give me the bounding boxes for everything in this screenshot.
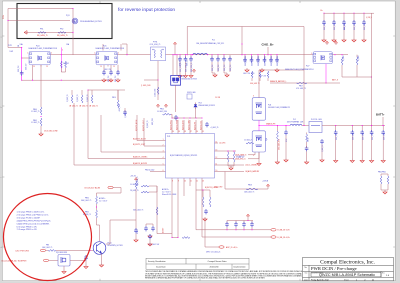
junction 178 237 (177, 237, 178, 238)
wire PR11 up (91, 90, 93, 95)
wire drop PQ5 cluster 1 (110, 65, 112, 72)
wire row3 ADP_ID (205, 246, 219, 248)
svg-text:ACSET=: ACSET= (162, 188, 169, 191)
svg-text:NB_G4SS_75: NB_G4SS_75 (57, 35, 68, 37)
ground PC3 (109, 78, 113, 82)
wire U1 pin3 vertical (100, 115, 102, 152)
junction DCIN/gate (7, 20, 8, 21)
note block change list (17, 211, 52, 232)
junction above IC 184 (183, 117, 184, 118)
wire pc40 link (146, 224, 153, 226)
svg-text:4.7K_0402_75: 4.7K_0402_75 (296, 88, 306, 90)
wire drop center cap 1 (185, 55, 187, 59)
svg-text:100K_0402_75: 100K_0402_75 (42, 247, 52, 249)
wire PQ4 source drop (32, 65, 34, 80)
svg-text:5: 5 (163, 163, 164, 165)
svg-text:51_0402_75: 51_0402_75 (87, 94, 89, 102)
wire PR26 top (233, 151, 235, 152)
resistor PR25 (227, 152, 229, 162)
compal secret data table (146, 258, 249, 269)
junction above IC 172 (171, 117, 172, 118)
wire PR40 down (381, 184, 385, 190)
transistor PQ10 (93, 242, 106, 255)
wire PR10 up (81, 90, 83, 95)
wire res32 link (149, 186, 157, 192)
junction lodrv (202, 189, 203, 190)
junction chain mid (96, 206, 97, 207)
svg-text:1_0402_25: 1_0402_25 (322, 145, 324, 152)
component PJ2 small box (187, 94, 192, 99)
wire U1 left pin 1 (137, 140, 166, 142)
svg-text:10_0402: 10_0402 (343, 55, 345, 61)
ground center 2 (189, 74, 193, 78)
wire PR23 up (306, 133, 308, 135)
svg-text:<19,26,50> ACIN: <19,26,50> ACIN (84, 186, 100, 189)
capacitor PC7 (184, 57, 188, 62)
svg-text:10UF_25V_1206: 10UF_25V_1206 (252, 56, 254, 66)
wire drop bus cap 1 (251, 55, 253, 60)
svg-text:300K_0402_75: 300K_0402_75 (133, 209, 143, 211)
junction left hot bottom (21, 80, 22, 81)
svg-text:PQ11 BSS138W: PQ11 BSS138W (56, 252, 68, 254)
capacitor PC47 (242, 222, 246, 227)
wire bottom pin 172 drop (171, 186, 173, 238)
wire U1 left pin 5 (74, 164, 166, 166)
svg-text:Size: Size (305, 272, 308, 274)
resistor PR5 (60, 61, 62, 68)
wire mid cap gnd a (212, 72, 215, 73)
resistor PR64 (40, 107, 42, 115)
wire E cap stub 0 (226, 221, 228, 224)
svg-text:51_0402_75: 51_0402_75 (31, 111, 40, 113)
ground top cap 0 (322, 38, 326, 42)
resistor PR13 (157, 87, 159, 95)
wire CHG label tick (267, 47, 269, 55)
svg-text:10UF_25V: 10UF_25V (362, 133, 364, 140)
wire PR24 link (171, 114, 172, 118)
resistor PR30 (96, 196, 98, 204)
junction SEANCN row (325, 82, 326, 83)
svg-text:BQ24725_VCC: BQ24725_VCC (200, 121, 202, 130)
wire E cap stub 1 (235, 221, 237, 224)
svg-text:BQ24725_BTST: BQ24725_BTST (182, 120, 184, 130)
wire top cap gnd lead 0 (323, 25, 325, 38)
junction bus cap 0 (244, 54, 245, 55)
svg-text:5: 5 (62, 50, 63, 52)
wire PTH1 bottom vertical (157, 61, 159, 100)
svg-text:PR44 10_0402: PR44 10_0402 (145, 170, 155, 172)
svg-text:10UF_25V: 10UF_25V (224, 64, 226, 71)
svg-text:10UF_25V: 10UF_25V (383, 133, 385, 140)
junction above IC 190 (189, 117, 190, 118)
wire PR20 top (356, 55, 358, 57)
wire U1 right pin 2 (215, 158, 235, 160)
wire mid cap lead 0 (211, 62, 213, 72)
wire 15VLB row (225, 188, 268, 190)
svg-text:<10,20,28,38,40> SUSPW#: <10,20,28,38,40> SUSPW# (1, 259, 27, 262)
svg-text:PR8: PR8 (46, 244, 49, 246)
resistor PR10 (81, 95, 83, 103)
junction above IC 202 (201, 117, 202, 118)
svg-text:PL1: PL1 (212, 39, 215, 41)
wire A_SRC_S (248, 152, 259, 159)
svg-text:BQ24725_PVCC: BQ24725_PVCC (170, 120, 172, 130)
junction PQ4 drop (32, 80, 33, 81)
transistor PQ5 package (96, 51, 117, 65)
resistor PR52 (267, 71, 269, 78)
wire drop mid cap 1 (217, 55, 219, 59)
wire right link y77 (342, 76, 372, 78)
ground Q10 (99, 263, 103, 267)
power arrow +3V_S5 (135, 178, 138, 182)
svg-text:1_0402_25: 1_0402_25 (125, 111, 127, 118)
wire 15VLB arrow stem (267, 188, 269, 189)
svg-text:100K_0402_75: 100K_0402_75 (250, 83, 260, 85)
svg-text:51_0402_75: 51_0402_75 (67, 94, 69, 102)
junction 172 237 (171, 237, 172, 238)
svg-text:10UF_25V: 10UF_25V (336, 133, 338, 140)
svg-text:Q_GND_2016: Q_GND_2016 (141, 85, 151, 87)
wire PL2 to PL3 (302, 125, 309, 127)
wire top cap gnd lead 2 (343, 25, 345, 38)
resistor PR9 (71, 95, 73, 103)
svg-text:100P: 100P (10, 51, 14, 53)
svg-text:Compal Secret Data: Compal Secret Data (208, 260, 228, 263)
resistor PR20 (356, 57, 358, 65)
wire top cap drop 3 (353, 13, 355, 22)
svg-text:0402_2016: 0402_2016 (152, 118, 154, 125)
svg-text:PR1: PR1 (40, 29, 43, 31)
power arrow E row (247, 214, 250, 218)
junction PTH1 vertical (157, 79, 158, 80)
svg-text:10UF_25V_1206: 10UF_25V_1206 (265, 56, 267, 66)
capacitor PC40 (144, 226, 148, 231)
wire A_GATE_S (248, 152, 255, 155)
wire drop bus cap 4 (270, 55, 272, 60)
resistor PR16 (182, 237, 190, 239)
wire PR36 down (135, 189, 137, 230)
wire chain to Q10 (97, 218, 100, 241)
wire batt cap drop 4 (382, 126, 384, 133)
wire E_NB_IN row2 (202, 236, 271, 238)
wire PQ3 drain vertical (72, 9, 74, 55)
wire PR5 bottom (61, 68, 65, 72)
capacitor PC22 (342, 20, 346, 25)
junction CHG loop left (187, 54, 188, 55)
junction PR22 (277, 125, 278, 126)
svg-text:9: 9 (178, 180, 179, 182)
junction bus cap 1 (251, 54, 252, 55)
offpage connector ACIN (108, 186, 113, 188)
wire batt cap drop 2 (361, 126, 363, 133)
capacitor PC72 (222, 57, 226, 62)
wire DCIN elbow (8, 47, 22, 49)
transistor PQ6 package (252, 98, 265, 121)
wire drop mid cap 0 (211, 55, 213, 59)
secret data fine print paragraph (145, 270, 303, 279)
wire CHG loop to battrow (303, 70, 305, 126)
svg-text:HEREIN ARE CONFIDENTIAL AND PR: HEREIN ARE CONFIDENTIAL AND PROPRIETARY … (145, 277, 266, 280)
ground left chain (39, 132, 43, 136)
wire PL3 to BATT bus (322, 125, 385, 127)
svg-text:1.Change PR03 to 200K 0.1%.: 1.Change PR03 to 200K 0.1%. (17, 211, 45, 214)
ground mid caps a (213, 73, 217, 77)
svg-text:(24) C_CMSRC: (24) C_CMSRC (246, 165, 259, 167)
capacitor PC20 (322, 20, 326, 25)
wire U1 right pin 0 (215, 142, 219, 144)
wire PR65 to gnd (40, 126, 42, 133)
junction base (89, 250, 90, 251)
wire row1 from pin (195, 186, 197, 230)
port arrow NB_G4SS (24, 31, 27, 35)
resistor PR24 (163, 113, 172, 115)
wire PC50 up (285, 126, 287, 131)
wire cap row link 2 (243, 227, 245, 230)
capacitor PC56 (351, 130, 355, 135)
svg-text:c: c (1, 177, 2, 179)
svg-text:19: 19 (178, 131, 180, 133)
wire acset elbow (157, 233, 172, 235)
capacitor PC26 (320, 139, 324, 144)
junction batt cap 4 (383, 125, 384, 126)
svg-text:PR17: PR17 (299, 86, 303, 88)
wire PQ7 drain down (325, 64, 327, 83)
svg-text:10UF_25V: 10UF_25V (212, 64, 214, 71)
svg-text:6: 6 (163, 170, 164, 172)
wire batt cap lead 1 (351, 135, 353, 158)
capacitor PC41 (151, 226, 155, 231)
junction PQ9 b (176, 54, 177, 55)
inductor PL1 (193, 53, 208, 54)
wire ADP vertical (204, 218, 206, 247)
wire acok vertical (136, 115, 138, 141)
wire drop bus cap 2 (257, 55, 259, 60)
svg-text:E_NB_IN <8,9>: E_NB_IN <8,9> (278, 229, 291, 232)
svg-text:E_NB_IN <8,9>: E_NB_IN <8,9> (278, 236, 291, 239)
svg-text:10: 10 (216, 170, 218, 172)
svg-text:@PD# C/O_0402_25: @PD# C/O_0402_25 (206, 251, 220, 253)
wire PQ11 down (63, 266, 65, 270)
svg-text:for reverse input protection: for reverse input protection (118, 7, 175, 13)
wire above PQ5 b (120, 44, 122, 51)
ground bottom mid (203, 217, 207, 221)
svg-text:2_0402: 2_0402 (308, 137, 310, 142)
junction E row 2 (243, 229, 244, 230)
wire cap row link 1 (235, 227, 237, 230)
capacitor PC24 (362, 20, 366, 25)
svg-text:1M_0402_75: 1M_0402_75 (79, 106, 88, 108)
wire E_NB_IN row1 (196, 229, 271, 231)
wire bus into PQ4 (22, 57, 29, 59)
junction ACDRV top (87, 89, 88, 90)
power arrow VIN b (335, 41, 338, 45)
wire U1 right pin 4 (215, 171, 245, 173)
junction E row 3 (251, 229, 252, 230)
svg-text:BATT+: BATT+ (376, 112, 385, 116)
svg-text:2: 2 (163, 144, 164, 146)
junction PQ9 a (172, 54, 173, 55)
wire lodrv rail (196, 189, 210, 191)
resistor PR23 (306, 134, 308, 142)
junction right bus b (341, 54, 342, 55)
svg-text:10UF_25V: 10UF_25V (18, 65, 20, 72)
reverse input protection highlight box (17, 4, 112, 39)
svg-text:12: 12 (216, 157, 218, 159)
wire B+ long vertical (371, 13, 373, 125)
svg-text:Rlow=20.55~18.88: Rlow=20.55~18.88 (162, 194, 176, 196)
junction bus cap 5 (276, 54, 277, 55)
capacitor PC14 (269, 58, 273, 63)
resistor PR33 (202, 197, 204, 207)
wire E caps top rail (227, 220, 253, 222)
svg-text:1_0402_2016: 1_0402_2016 (154, 89, 156, 98)
wire above-IC rail (172, 117, 202, 119)
wire PR25 top (227, 151, 229, 152)
wire U1 top pin 5 (201, 120, 203, 134)
ground PC2 (102, 78, 106, 82)
wire PR25 gnd link (228, 162, 231, 166)
inductor PL2 (290, 124, 302, 125)
wire phase to PL2 (259, 125, 290, 127)
wire top cap gnd lead 3 (353, 25, 355, 38)
wire SUSPW to PQ11 (49, 259, 58, 261)
junction bus 224 (223, 54, 224, 55)
power arrow PQ9 (193, 69, 196, 73)
wire BATT+ label stem (382, 117, 384, 126)
svg-text:10_0402_2016: 10_0402_2016 (157, 111, 167, 113)
offpage connector ADP_ID (219, 246, 224, 248)
capacitor PC46 (234, 222, 238, 227)
svg-text:51_0402_75: 51_0402_75 (77, 94, 79, 102)
wire 15VLB drop (224, 172, 226, 190)
junction phase node (258, 125, 259, 126)
svg-text:BSS8042DW_SOT363: BSS8042DW_SOT363 (182, 79, 197, 81)
review markup red ellipse (4, 194, 92, 281)
svg-text:3: 3 (163, 150, 164, 152)
offpage connector SUSPW (43, 259, 48, 261)
wire PR41 down (385, 184, 388, 190)
wire PR20 to y77 (356, 65, 358, 77)
wire PR50 gnd (251, 78, 253, 81)
wire pins 237 row (172, 237, 178, 239)
wire Q10 emitter (101, 254, 103, 264)
junction top bus 4 (363, 13, 364, 14)
capacitor PC23 (352, 20, 356, 25)
junction bus at PL1 left (192, 54, 193, 55)
wire PR40 stub (380, 174, 382, 176)
svg-text:2: 2 (356, 280, 357, 282)
wire E cap stub 3 (251, 221, 253, 224)
resistor PR11 (91, 95, 93, 103)
junction L2 at 127 (126, 54, 127, 55)
svg-text:10_0402: 10_0402 (358, 55, 360, 61)
wire mid cap gnd b (224, 72, 227, 73)
junction above IC 196 (195, 117, 196, 118)
wire bottom pin 178 drop (177, 186, 179, 238)
junction left hot mid (21, 57, 22, 58)
wire PQ6 top link (258, 70, 260, 98)
svg-text:100K_0402_75: 100K_0402_75 (244, 192, 254, 194)
wire cap row link 0 (226, 227, 228, 230)
svg-text:10UF_25V: 10UF_25V (104, 69, 111, 71)
resistor PR26 (233, 152, 235, 162)
svg-text:PQ10: PQ10 (108, 243, 112, 245)
svg-text:PQ5: PQ5 (103, 46, 106, 48)
wire center cap lead 0 (179, 62, 181, 74)
wire drop bus cap 0 (244, 55, 246, 60)
wire main B+ bus seg2 (50, 54, 96, 56)
svg-text:+15VLB: +15VLB (262, 180, 269, 182)
svg-text:PQ4: PQ4 (36, 46, 39, 48)
wire mid cap lead 3 (229, 62, 231, 72)
junction above IC 178 (177, 117, 178, 118)
svg-text:PJP1: PJP1 (8, 45, 12, 47)
transistor PQ8 package (252, 131, 265, 152)
wire PQ9 top b (176, 55, 178, 76)
svg-text:PR40 PR41: PR40 PR41 (378, 172, 386, 174)
svg-text:SEANCN_BATDRV_L: SEANCN_BATDRV_L (270, 80, 287, 83)
wire y80 PTH1 link (144, 79, 158, 81)
svg-text:PR64: PR64 (33, 109, 37, 111)
wire SEANCN row (270, 82, 340, 84)
junction PR64-PR65 (40, 116, 41, 117)
resistor PR2 (58, 32, 66, 34)
wire PC61 down (135, 233, 137, 238)
svg-text:Rev: Rev (382, 272, 385, 274)
svg-text:PQ7: PQ7 (306, 65, 309, 67)
svg-text:4.Add PR51,PR75,PR76,PQ17,PQ21: 4.Add PR51,PR75,PR76,PQ17,PQ21. (17, 219, 52, 222)
svg-text:11: 11 (190, 180, 192, 182)
resistor PR14 (117, 100, 119, 108)
junction left hot top (21, 47, 22, 48)
wire PR19 to y77 (341, 65, 343, 77)
wire PR52 gnd (267, 78, 269, 81)
svg-text:PU1: PU1 (167, 136, 170, 138)
junction PC50 (285, 125, 286, 126)
svg-text:<26> FSTCHG: <26> FSTCHG (15, 249, 29, 252)
svg-text:10: 10 (184, 180, 186, 182)
svg-text:10UF_25V_1206: 10UF_25V_1206 (245, 56, 247, 66)
wire FSTCHG to base (56, 249, 93, 251)
wire PC60 down (85, 260, 87, 264)
svg-text:2 3: 2 3 (100, 66, 102, 68)
resistor PR32 (141, 191, 149, 193)
capacitor PC13 (263, 58, 267, 63)
svg-text:PMEG6010ER_SOD123: PMEG6010ER_SOD123 (199, 105, 216, 107)
svg-text:DCIN: DCIN (3, 15, 5, 19)
svg-text:10UF_25V: 10UF_25V (354, 23, 356, 30)
svg-text:10UF_25V_1206: 10UF_25V_1206 (277, 56, 279, 66)
resistor PR50 (251, 71, 253, 78)
wire row2 from pin (201, 186, 203, 237)
wire PR14 net (117, 90, 119, 100)
wire diode up (195, 109, 197, 119)
wire y80 horizontal (22, 79, 103, 81)
junction pwr E row (247, 220, 248, 221)
svg-text:10UF_25V: 10UF_25V (334, 23, 336, 30)
resistor PR8 (48, 250, 56, 252)
svg-text:8: 8 (172, 180, 173, 182)
title block frame (303, 258, 394, 282)
wire U1 bottom pin 5 (201, 178, 203, 186)
svg-text:Friday, April 06, 2012: Friday, April 06, 2012 (311, 279, 329, 282)
ground bus cap 1 (260, 68, 264, 72)
wire PR40 rail (381, 173, 388, 175)
capacitor PC36 (148, 234, 152, 239)
svg-text:4: 4 (163, 157, 164, 159)
junction L2 cap 2 (190, 54, 191, 55)
svg-text:10UF_25V: 10UF_25V (353, 133, 355, 140)
